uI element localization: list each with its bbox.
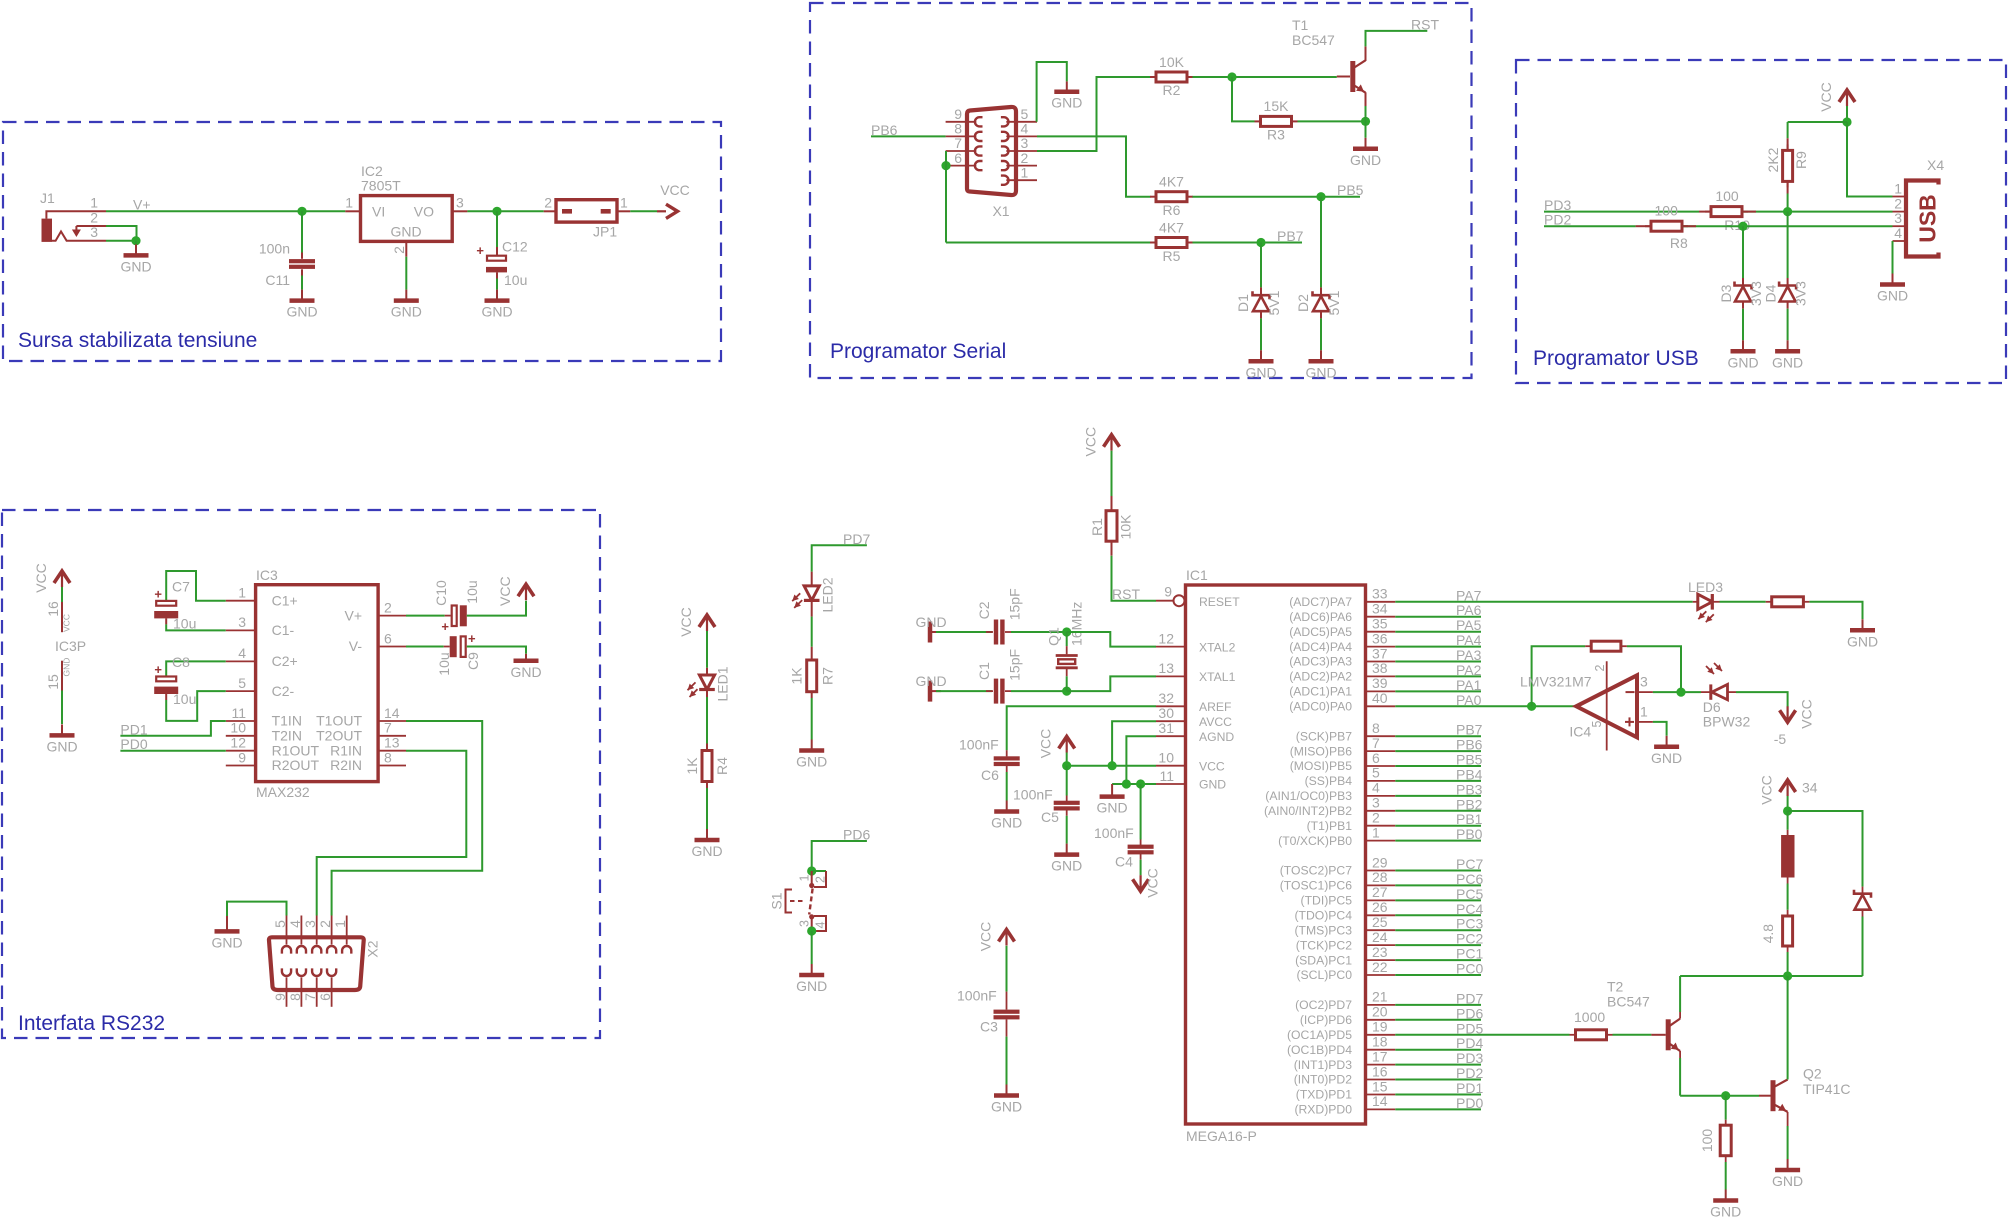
svg-text:1K: 1K — [789, 667, 805, 685]
svg-text:VCC: VCC — [678, 607, 694, 637]
svg-text:(ADC1)PA1: (ADC1)PA1 — [1289, 685, 1352, 699]
svg-text:3: 3 — [1894, 210, 1902, 226]
svg-text:24: 24 — [1372, 929, 1388, 945]
svg-text:R8: R8 — [1670, 235, 1688, 251]
svg-text:10u: 10u — [173, 691, 196, 707]
svg-text:VCC: VCC — [978, 922, 994, 952]
svg-text:PD4: PD4 — [1456, 1035, 1483, 1051]
svg-text:(SCK)PB7: (SCK)PB7 — [1296, 729, 1352, 743]
svg-text:9: 9 — [1164, 584, 1172, 600]
svg-text:USB: USB — [1915, 194, 1941, 243]
svg-text:AGND: AGND — [1199, 730, 1234, 744]
svg-text:+: + — [476, 243, 484, 258]
svg-text:27: 27 — [1372, 884, 1388, 900]
svg-text:3: 3 — [1372, 795, 1380, 811]
svg-text:+: + — [468, 631, 476, 646]
svg-text:GND: GND — [1199, 778, 1226, 792]
svg-text:GND: GND — [1877, 288, 1908, 304]
svg-text:100nF: 100nF — [957, 988, 997, 1004]
svg-text:GND: GND — [46, 738, 77, 754]
svg-text:+: + — [441, 619, 449, 634]
svg-text:2: 2 — [544, 195, 552, 211]
svg-text:(OC1B)PD4: (OC1B)PD4 — [1287, 1043, 1352, 1057]
svg-text:4: 4 — [1021, 121, 1029, 137]
svg-text:PB5: PB5 — [1456, 752, 1483, 768]
svg-text:D2: D2 — [1295, 294, 1311, 312]
svg-text:2: 2 — [384, 599, 392, 615]
svg-text:100: 100 — [1699, 1129, 1715, 1153]
svg-text:T1: T1 — [1292, 17, 1309, 33]
svg-text:14: 14 — [384, 705, 400, 721]
svg-text:T2IN: T2IN — [272, 728, 302, 744]
svg-text:R3: R3 — [1267, 127, 1285, 143]
svg-text:(ADC7)PA7: (ADC7)PA7 — [1289, 595, 1352, 609]
svg-text:6: 6 — [1372, 750, 1380, 766]
svg-text:C1+: C1+ — [272, 592, 298, 608]
svg-text:C11: C11 — [265, 272, 290, 288]
svg-text:PD2: PD2 — [1456, 1065, 1483, 1081]
svg-text:100n: 100n — [259, 241, 290, 257]
svg-text:1: 1 — [620, 195, 628, 211]
svg-text:R1OUT: R1OUT — [272, 742, 320, 758]
svg-text:Programator Serial: Programator Serial — [830, 340, 1006, 363]
svg-text:RST: RST — [1112, 586, 1140, 602]
svg-text:4.8: 4.8 — [1760, 924, 1776, 944]
svg-text:(TXD)PD1: (TXD)PD1 — [1296, 1088, 1352, 1102]
svg-text:VCC: VCC — [497, 576, 513, 606]
svg-text:4K7: 4K7 — [1159, 174, 1184, 190]
svg-text:GND: GND — [1772, 354, 1803, 370]
svg-text:R2IN: R2IN — [330, 757, 362, 773]
svg-text:XTAL2: XTAL2 — [1199, 640, 1236, 654]
svg-text:BPW32: BPW32 — [1703, 713, 1751, 729]
svg-text:AVCC: AVCC — [1199, 715, 1232, 729]
svg-text:PB2: PB2 — [1456, 796, 1483, 812]
svg-text:GND: GND — [915, 614, 946, 630]
svg-text:PC0: PC0 — [1456, 961, 1483, 977]
svg-text:34: 34 — [1372, 601, 1388, 617]
svg-text:VI: VI — [372, 204, 385, 220]
svg-text:17: 17 — [1372, 1048, 1388, 1064]
svg-text:PD6: PD6 — [1456, 1005, 1483, 1021]
svg-text:V-: V- — [349, 638, 363, 654]
svg-text:R1IN: R1IN — [330, 742, 362, 758]
svg-text:1: 1 — [1640, 704, 1648, 720]
svg-text:20: 20 — [1372, 1004, 1388, 1020]
svg-text:JP1: JP1 — [593, 224, 617, 240]
svg-text:C1: C1 — [976, 662, 992, 680]
svg-text:(INT0)PD2: (INT0)PD2 — [1294, 1073, 1352, 1087]
svg-text:GND: GND — [1651, 750, 1682, 766]
svg-text:12: 12 — [1158, 630, 1174, 646]
svg-text:1000: 1000 — [1574, 1009, 1605, 1025]
svg-text:15pF: 15pF — [1007, 588, 1023, 620]
svg-text:5: 5 — [272, 920, 288, 928]
svg-text:VCC: VCC — [33, 563, 49, 593]
svg-text:R1: R1 — [1089, 518, 1105, 536]
svg-text:(RXD)PD0: (RXD)PD0 — [1294, 1103, 1352, 1117]
svg-text:5: 5 — [1021, 106, 1029, 122]
svg-text:1: 1 — [332, 920, 348, 928]
svg-text:36: 36 — [1372, 630, 1388, 646]
svg-text:(TMS)PC3: (TMS)PC3 — [1294, 923, 1352, 937]
svg-text:10u: 10u — [504, 272, 527, 288]
svg-text:LMV321M7: LMV321M7 — [1520, 673, 1592, 689]
svg-text:PB7: PB7 — [1277, 228, 1304, 244]
svg-text:GND: GND — [391, 304, 422, 320]
svg-text:2: 2 — [1593, 664, 1607, 671]
svg-text:9: 9 — [238, 749, 246, 765]
svg-text:Q2: Q2 — [1803, 1066, 1822, 1082]
svg-text:6: 6 — [384, 630, 392, 646]
svg-text:1: 1 — [345, 195, 353, 211]
svg-text:14: 14 — [1372, 1093, 1388, 1109]
svg-text:PB0: PB0 — [1456, 826, 1483, 842]
svg-text:6: 6 — [954, 150, 962, 166]
svg-text:PA2: PA2 — [1456, 662, 1482, 678]
svg-text:3V3: 3V3 — [1748, 281, 1764, 306]
svg-text:VCC: VCC — [1038, 729, 1054, 759]
svg-text:7: 7 — [1372, 735, 1380, 751]
svg-text:PA1: PA1 — [1456, 677, 1482, 693]
svg-text:MEGA16-P: MEGA16-P — [1186, 1128, 1257, 1144]
svg-text:3: 3 — [798, 920, 812, 927]
svg-text:2: 2 — [391, 246, 407, 254]
svg-text:VCC: VCC — [1145, 868, 1161, 898]
svg-text:10u: 10u — [173, 616, 196, 632]
svg-text:GND: GND — [1350, 152, 1381, 168]
svg-text:+: + — [154, 587, 162, 602]
svg-text:V+: V+ — [133, 197, 151, 213]
svg-text:16MHz: 16MHz — [1069, 602, 1085, 646]
svg-text:C12: C12 — [502, 239, 528, 255]
svg-text:C4: C4 — [1115, 854, 1133, 870]
svg-text:5: 5 — [238, 675, 246, 691]
svg-text:5: 5 — [1590, 720, 1604, 727]
svg-text:PD0: PD0 — [1456, 1095, 1483, 1111]
svg-text:(OC2)PD7: (OC2)PD7 — [1295, 998, 1352, 1012]
svg-text:15: 15 — [1372, 1078, 1388, 1094]
svg-text:(TDI)PC5: (TDI)PC5 — [1301, 894, 1353, 908]
svg-text:LED3: LED3 — [1688, 579, 1723, 595]
svg-text:GND: GND — [1051, 858, 1082, 874]
svg-text:5V1: 5V1 — [1326, 290, 1342, 315]
svg-text:15: 15 — [45, 674, 61, 690]
svg-text:2: 2 — [317, 920, 333, 928]
svg-text:4: 4 — [1372, 780, 1380, 796]
svg-text:D4: D4 — [1763, 284, 1779, 302]
svg-text:10: 10 — [230, 720, 246, 736]
svg-text:+: + — [154, 662, 162, 677]
svg-text:3: 3 — [1640, 674, 1648, 690]
svg-text:S1: S1 — [769, 892, 785, 909]
svg-text:2: 2 — [814, 876, 828, 883]
svg-text:31: 31 — [1158, 720, 1174, 736]
svg-text:2: 2 — [1894, 195, 1902, 211]
svg-text:(TOSC1)PC6: (TOSC1)PC6 — [1280, 879, 1352, 893]
svg-text:39: 39 — [1372, 675, 1388, 691]
svg-text:(SDA)PC1: (SDA)PC1 — [1295, 953, 1352, 967]
svg-text:5V1: 5V1 — [1266, 290, 1282, 315]
svg-text:GND: GND — [481, 304, 512, 320]
svg-text:IC4: IC4 — [1569, 724, 1591, 740]
svg-text:(TDO)PC4: (TDO)PC4 — [1294, 909, 1352, 923]
svg-text:10K: 10K — [1159, 54, 1185, 70]
svg-text:(ADC2)PA2: (ADC2)PA2 — [1289, 670, 1352, 684]
svg-text:PB1: PB1 — [1456, 811, 1483, 827]
svg-text:PA4: PA4 — [1456, 632, 1482, 648]
svg-text:(SCL)PC0: (SCL)PC0 — [1296, 968, 1352, 982]
svg-text:11: 11 — [1159, 768, 1174, 784]
svg-text:TIP41C: TIP41C — [1803, 1081, 1850, 1097]
svg-text:(ADC4)PA4: (ADC4)PA4 — [1289, 640, 1352, 654]
svg-text:GND: GND — [991, 1099, 1022, 1115]
svg-text:1: 1 — [238, 585, 246, 601]
svg-text:6: 6 — [317, 993, 333, 1001]
svg-text:40: 40 — [1372, 690, 1388, 706]
svg-text:R4: R4 — [714, 757, 730, 775]
svg-text:C10: C10 — [433, 580, 449, 606]
svg-text:28: 28 — [1372, 869, 1388, 885]
svg-text:PC4: PC4 — [1456, 901, 1483, 917]
svg-text:R6: R6 — [1163, 202, 1181, 218]
svg-text:100: 100 — [1715, 188, 1739, 204]
svg-text:10u: 10u — [436, 652, 452, 675]
svg-text:J1: J1 — [40, 190, 55, 206]
svg-text:34: 34 — [1802, 780, 1818, 796]
svg-text:PA3: PA3 — [1456, 647, 1482, 663]
svg-text:R9: R9 — [1793, 151, 1809, 169]
svg-text:100nF: 100nF — [1013, 787, 1053, 803]
svg-text:23: 23 — [1372, 944, 1388, 960]
svg-text:100: 100 — [1655, 202, 1679, 218]
svg-text:XTAL1: XTAL1 — [1199, 670, 1236, 684]
svg-text:VCC: VCC — [1083, 427, 1099, 457]
svg-text:16: 16 — [45, 601, 61, 617]
svg-text:T2OUT: T2OUT — [316, 728, 362, 744]
svg-text:4: 4 — [287, 920, 303, 928]
svg-text:C2-: C2- — [272, 683, 295, 699]
svg-text:LED2: LED2 — [819, 577, 835, 612]
svg-text:GND: GND — [211, 934, 242, 950]
svg-text:8: 8 — [1372, 720, 1380, 736]
svg-text:VCC: VCC — [1818, 82, 1834, 112]
svg-text:(INT1)PD3: (INT1)PD3 — [1294, 1058, 1352, 1072]
svg-text:12: 12 — [230, 735, 246, 751]
svg-text:2: 2 — [90, 209, 98, 225]
svg-text:2: 2 — [1021, 150, 1029, 166]
svg-text:1: 1 — [1372, 824, 1380, 840]
svg-text:GND: GND — [1051, 95, 1082, 111]
svg-text:R2: R2 — [1163, 82, 1181, 98]
svg-text:13: 13 — [1158, 660, 1174, 676]
svg-text:PB3: PB3 — [1456, 781, 1483, 797]
svg-text:GND: GND — [915, 673, 946, 689]
svg-text:22: 22 — [1372, 959, 1388, 975]
svg-text:4: 4 — [238, 645, 246, 661]
svg-text:GND: GND — [1772, 1173, 1803, 1189]
svg-text:VCC: VCC — [62, 614, 72, 632]
svg-text:2K2: 2K2 — [1765, 147, 1781, 172]
svg-text:25: 25 — [1372, 914, 1388, 930]
svg-text:PD1: PD1 — [1456, 1080, 1483, 1096]
svg-text:(AIN0/INT2)PB2: (AIN0/INT2)PB2 — [1264, 804, 1352, 818]
svg-text:(ADC6)PA6: (ADC6)PA6 — [1289, 610, 1352, 624]
svg-text:X2: X2 — [365, 940, 381, 957]
svg-text:(AIN1/OC0)PB3: (AIN1/OC0)PB3 — [1265, 789, 1352, 803]
svg-text:PC3: PC3 — [1456, 916, 1483, 932]
svg-text:8: 8 — [954, 121, 962, 137]
svg-text:GND: GND — [286, 304, 317, 320]
svg-text:35: 35 — [1372, 616, 1388, 632]
svg-text:T2: T2 — [1607, 979, 1624, 995]
svg-text:(OC1A)PD5: (OC1A)PD5 — [1287, 1028, 1352, 1042]
svg-text:T1IN: T1IN — [272, 713, 302, 729]
svg-text:21: 21 — [1372, 989, 1388, 1005]
svg-text:9: 9 — [272, 993, 288, 1001]
svg-text:3: 3 — [238, 614, 246, 630]
svg-text:IC3: IC3 — [256, 567, 278, 583]
svg-text:(ICP)PD6: (ICP)PD6 — [1300, 1013, 1352, 1027]
svg-text:PC2: PC2 — [1456, 931, 1483, 947]
svg-text:C8: C8 — [172, 654, 190, 670]
svg-text:PC1: PC1 — [1456, 946, 1483, 962]
svg-text:C1-: C1- — [272, 622, 295, 638]
svg-text:(ADC5)PA5: (ADC5)PA5 — [1289, 625, 1352, 639]
svg-text:C5: C5 — [1041, 809, 1059, 825]
svg-text:(SS)PB4: (SS)PB4 — [1305, 774, 1353, 788]
svg-text:GND: GND — [1097, 800, 1128, 816]
svg-text:4: 4 — [1894, 225, 1902, 241]
svg-text:BC547: BC547 — [1292, 32, 1335, 48]
svg-text:PD7: PD7 — [1456, 990, 1483, 1006]
svg-text:GND: GND — [1727, 354, 1758, 370]
svg-text:BC547: BC547 — [1607, 994, 1650, 1010]
svg-text:GND: GND — [691, 843, 722, 859]
svg-text:29: 29 — [1372, 854, 1388, 870]
svg-text:V+: V+ — [344, 607, 362, 623]
svg-text:C7: C7 — [172, 579, 190, 595]
svg-text:PB6: PB6 — [1456, 737, 1483, 753]
svg-text:MAX232: MAX232 — [256, 784, 310, 800]
svg-text:Programator USB: Programator USB — [1533, 347, 1699, 370]
svg-text:Q1: Q1 — [1046, 627, 1062, 646]
svg-text:15pF: 15pF — [1007, 649, 1023, 681]
svg-text:Sursa stabilizata tensiune: Sursa stabilizata tensiune — [18, 329, 257, 352]
svg-text:GND: GND — [796, 754, 827, 770]
svg-text:15K: 15K — [1264, 98, 1290, 114]
svg-text:GND: GND — [120, 258, 151, 274]
svg-text:GND: GND — [1710, 1204, 1741, 1220]
svg-text:PA6: PA6 — [1456, 602, 1482, 618]
svg-text:3: 3 — [90, 224, 98, 240]
svg-text:GND: GND — [390, 224, 421, 240]
svg-text:100nF: 100nF — [959, 737, 999, 753]
svg-text:37: 37 — [1372, 645, 1388, 661]
svg-text:(ADC0)PA0: (ADC0)PA0 — [1289, 700, 1352, 714]
svg-text:VCC: VCC — [1799, 699, 1815, 729]
svg-text:RESET: RESET — [1199, 595, 1240, 609]
svg-text:PC7: PC7 — [1456, 856, 1483, 872]
svg-text:7805T: 7805T — [361, 178, 401, 194]
svg-text:3: 3 — [1021, 135, 1029, 151]
svg-text:PB7: PB7 — [1456, 722, 1483, 738]
svg-text:GND: GND — [796, 978, 827, 994]
svg-text:GND: GND — [62, 658, 72, 677]
svg-text:PA5: PA5 — [1456, 617, 1482, 633]
svg-text:4K7: 4K7 — [1159, 220, 1184, 236]
svg-text:VCC: VCC — [1759, 775, 1775, 805]
svg-text:C3: C3 — [980, 1019, 998, 1035]
svg-text:(ADC3)PA3: (ADC3)PA3 — [1289, 655, 1352, 669]
svg-text:3V3: 3V3 — [1793, 281, 1809, 306]
svg-text:13: 13 — [384, 735, 400, 751]
svg-text:C9: C9 — [465, 652, 481, 670]
svg-text:D1: D1 — [1235, 294, 1251, 312]
svg-text:9: 9 — [954, 106, 962, 122]
svg-text:PC5: PC5 — [1456, 886, 1483, 902]
svg-text:LED1: LED1 — [715, 666, 731, 701]
svg-text:26: 26 — [1372, 899, 1388, 915]
svg-text:PD3: PD3 — [1456, 1050, 1483, 1066]
svg-text:1: 1 — [1021, 164, 1029, 180]
svg-text:C6: C6 — [981, 767, 999, 783]
svg-text:19: 19 — [1372, 1019, 1388, 1035]
svg-text:1: 1 — [90, 195, 98, 211]
svg-text:1K: 1K — [684, 757, 700, 775]
svg-text:PC6: PC6 — [1456, 871, 1483, 887]
svg-text:VCC: VCC — [1199, 759, 1225, 773]
svg-text:D3: D3 — [1718, 284, 1734, 302]
svg-text:33: 33 — [1372, 586, 1388, 602]
svg-text:7: 7 — [302, 993, 318, 1001]
svg-text:7: 7 — [954, 135, 962, 151]
svg-text:Interfata RS232: Interfata RS232 — [18, 1012, 165, 1035]
svg-text:100nF: 100nF — [1094, 825, 1134, 841]
svg-text:AREF: AREF — [1199, 700, 1232, 714]
svg-text:C2+: C2+ — [272, 653, 298, 669]
svg-text:GND: GND — [510, 664, 541, 680]
svg-text:RST: RST — [1411, 17, 1439, 33]
svg-text:GND: GND — [1245, 364, 1276, 380]
svg-text:X4: X4 — [1927, 157, 1944, 173]
svg-text:-5: -5 — [1774, 731, 1787, 747]
svg-text:32: 32 — [1158, 690, 1174, 706]
svg-text:3: 3 — [302, 920, 318, 928]
svg-text:GND: GND — [1847, 633, 1878, 649]
svg-text:18: 18 — [1372, 1034, 1388, 1050]
svg-text:R7: R7 — [820, 667, 836, 685]
svg-text:2: 2 — [1372, 810, 1380, 826]
svg-text:C2: C2 — [976, 601, 992, 619]
svg-text:IC1: IC1 — [1186, 567, 1208, 583]
svg-text:10u: 10u — [464, 580, 480, 603]
svg-text:GND: GND — [991, 815, 1022, 831]
svg-text:(TCK)PC2: (TCK)PC2 — [1296, 938, 1352, 952]
svg-text:1: 1 — [1894, 180, 1902, 196]
svg-text:10K: 10K — [1118, 514, 1134, 540]
svg-text:(T0/XCK)PB0: (T0/XCK)PB0 — [1278, 834, 1352, 848]
svg-text:(MISO)PB6: (MISO)PB6 — [1290, 744, 1353, 758]
svg-text:30: 30 — [1158, 705, 1174, 721]
svg-text:T1OUT: T1OUT — [316, 713, 362, 729]
svg-text:IC3P: IC3P — [55, 638, 86, 654]
svg-text:1: 1 — [798, 874, 812, 881]
svg-text:VCC: VCC — [660, 182, 690, 198]
svg-text:7: 7 — [384, 720, 392, 736]
svg-text:4: 4 — [814, 921, 828, 928]
svg-text:GND: GND — [1305, 364, 1336, 380]
